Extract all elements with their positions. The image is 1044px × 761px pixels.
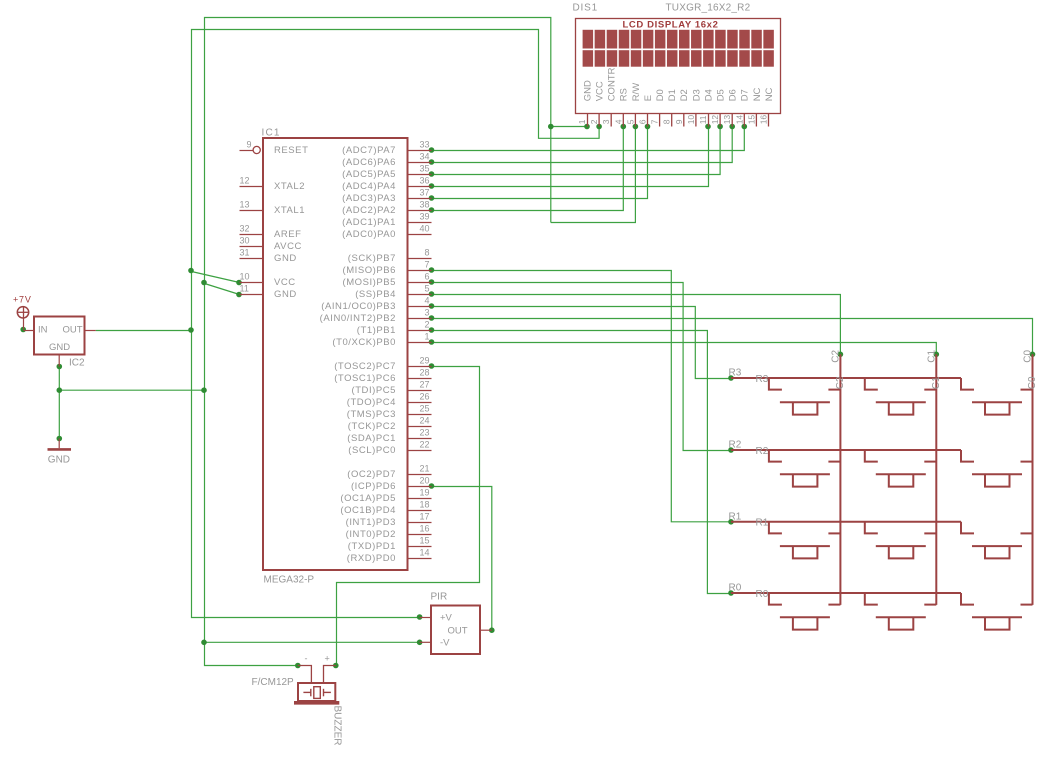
- svg-text:18: 18: [419, 500, 429, 510]
- svg-text:40: 40: [419, 224, 429, 234]
- svg-text:1: 1: [424, 332, 429, 342]
- svg-text:RS: RS: [619, 88, 630, 101]
- wire net PB1 to keypad row R0: [432, 331, 732, 594]
- svg-text:GND: GND: [48, 455, 70, 466]
- junction dot IC1 GND pin11: [236, 292, 242, 298]
- LCD pin 5 R/W: [634, 114, 636, 127]
- svg-text:OUT: OUT: [448, 626, 468, 637]
- IC1 pin 36 (ADC4)PA4: [408, 186, 432, 188]
- svg-text:R/W: R/W: [631, 83, 642, 102]
- svg-text:R1: R1: [756, 518, 769, 529]
- IC2 pin OUT: [85, 330, 96, 332]
- IC1 pin 34 (ADC6)PA6: [408, 162, 432, 164]
- wire net PA5 to LCD pin12: [432, 127, 721, 175]
- IC1 pin 27 (TDI)PC5: [408, 390, 432, 392]
- svg-text:37: 37: [419, 188, 429, 198]
- svg-text:14: 14: [734, 115, 744, 125]
- svg-text:XTAL2: XTAL2: [274, 181, 305, 192]
- wire net PC7 to buzzer plus: [337, 367, 480, 666]
- pushbutton switch R2C1: [865, 450, 937, 487]
- svg-text:19: 19: [419, 488, 429, 498]
- svg-text:8: 8: [424, 248, 429, 258]
- svg-text:23: 23: [419, 428, 429, 438]
- svg-text:(SS)PB4: (SS)PB4: [355, 289, 396, 300]
- LCD pin 4 RS: [622, 114, 624, 127]
- keypad column line C2: [839, 354, 841, 605]
- svg-text:(AIN1/OC0)PB3: (AIN1/OC0)PB3: [321, 301, 396, 312]
- svg-text:IC2: IC2: [69, 358, 85, 369]
- svg-text:C2: C2: [835, 376, 846, 389]
- svg-text:28: 28: [419, 368, 429, 378]
- svg-text:NC: NC: [752, 87, 763, 101]
- svg-text:3: 3: [601, 119, 611, 124]
- svg-text:+: +: [325, 654, 330, 664]
- LCD pin 12 D5: [719, 114, 721, 127]
- junction dots on LCD pins 1 2 4 5 6 11 12 13 14: [584, 124, 590, 130]
- IC1 pin 22 (SCL)PC0: [408, 450, 432, 452]
- LCD pin 2 VCC: [598, 114, 600, 127]
- svg-text:10: 10: [240, 272, 250, 282]
- svg-text:11: 11: [240, 284, 249, 294]
- IC1 pin 4 (AIN1/OC0)PB3: [408, 306, 432, 308]
- LCD pin 11 D4: [708, 114, 710, 127]
- svg-text:(SCL)PC0: (SCL)PC0: [348, 445, 396, 456]
- IC2 pin GND: [58, 355, 60, 367]
- wire net GND: main rail top and left vertical down to buzzer minus: [205, 18, 551, 666]
- IC1 pin 28 (TOSC1)PC6: [408, 378, 432, 380]
- svg-text:26: 26: [419, 392, 429, 402]
- IC1 pin 39 (ADC1)PA1: [408, 222, 432, 224]
- junction dot GND rail upper: [201, 280, 207, 286]
- svg-text:R3: R3: [756, 374, 769, 385]
- svg-text:D2: D2: [679, 89, 690, 101]
- pushbutton switch R2C2: [769, 450, 841, 487]
- svg-text:14: 14: [419, 548, 429, 558]
- svg-text:IN: IN: [38, 325, 48, 336]
- svg-text:15: 15: [746, 115, 756, 125]
- IC1 pin 17 (INT1)PD3: [408, 522, 432, 524]
- LCD pin 16 NC: [768, 114, 770, 127]
- svg-text:9: 9: [674, 119, 684, 124]
- junction dot VCC rail at IC2 OUT: [188, 327, 194, 333]
- IC IC1 MEGA32-P body: [263, 138, 408, 570]
- junction dot GND rail at PIR -V branch: [201, 640, 207, 646]
- junction dot IC1 VCC pin10: [236, 280, 242, 286]
- wire net VCC branch: diagonal to IC1 VCC pin 10: [192, 272, 240, 283]
- IC1 pin 24 (TCK)PC2: [408, 426, 432, 428]
- svg-text:(TDO)PC4: (TDO)PC4: [347, 397, 396, 408]
- svg-text:R2: R2: [729, 440, 742, 451]
- LCD pin 14 D7: [743, 114, 745, 127]
- svg-text:(TMS)PC3: (TMS)PC3: [347, 409, 396, 420]
- svg-text:BUZZER: BUZZER: [332, 706, 343, 746]
- svg-text:35: 35: [419, 164, 429, 174]
- buzzer SG minus lead: [298, 666, 312, 684]
- svg-text:GND: GND: [582, 80, 593, 101]
- svg-text:36: 36: [419, 176, 429, 186]
- LCD pin 6 E: [647, 114, 649, 127]
- svg-text:12: 12: [240, 176, 250, 186]
- IC1 pin 12 XTAL2: [240, 186, 264, 188]
- svg-text:RESET: RESET: [274, 145, 308, 156]
- svg-text:(INT1)PD3: (INT1)PD3: [346, 517, 396, 528]
- IC1 pin 6 (MOSI)PB5: [408, 282, 432, 284]
- svg-text:D6: D6: [728, 89, 739, 101]
- svg-text:MEGA32-P: MEGA32-P: [264, 575, 315, 586]
- keypad row line R2: [731, 449, 961, 451]
- IC1 pin 19 (OC1A)PD5: [408, 498, 432, 500]
- LCD pin 15 NC: [755, 114, 757, 127]
- IC1 pin 8 (SCK)PB7: [408, 258, 432, 260]
- IC1 pin 30 AVCC: [240, 246, 264, 248]
- svg-text:6: 6: [638, 119, 648, 124]
- buzzer F/CM12P body: [298, 683, 335, 701]
- svg-text:39: 39: [419, 212, 429, 222]
- svg-text:-: -: [305, 654, 308, 664]
- PIR pin OUT stub: [481, 629, 492, 631]
- svg-text:(OC1B)PD4: (OC1B)PD4: [340, 505, 396, 516]
- wire net GND branch: IC2 GND pin down to ground symbol: [58, 367, 60, 439]
- svg-text:8: 8: [662, 119, 672, 124]
- IC1 pin 3 (AIN0/INT2)PB2: [408, 318, 432, 320]
- svg-text:(T0/XCK)PB0: (T0/XCK)PB0: [332, 337, 396, 348]
- svg-text:(SDA)PC1: (SDA)PC1: [347, 433, 396, 444]
- junction dot ground tee: [57, 387, 63, 393]
- svg-text:(TCK)PC2: (TCK)PC2: [348, 421, 396, 432]
- wire net PA3 to LCD pin6 E: [432, 127, 648, 199]
- IC1 pin 7 (MISO)PB6: [408, 270, 432, 272]
- svg-text:AREF: AREF: [274, 229, 302, 240]
- svg-text:PIR: PIR: [431, 592, 448, 603]
- voltage regulator IC2 body: [34, 317, 85, 355]
- svg-text:-V: -V: [440, 638, 450, 649]
- keypad row line R0: [731, 592, 961, 594]
- junction dot buzzer plus: [333, 663, 339, 669]
- svg-text:C0: C0: [1023, 349, 1034, 362]
- svg-text:29: 29: [419, 356, 429, 366]
- svg-text:+V: +V: [440, 613, 453, 624]
- svg-text:VCC: VCC: [595, 81, 606, 101]
- wire net PB5 to keypad row R2: [432, 283, 732, 451]
- wire net PA6 to LCD pin13: [432, 127, 733, 163]
- svg-text:5: 5: [625, 119, 635, 124]
- svg-text:33: 33: [419, 140, 429, 150]
- pushbutton switch R0C0: [961, 593, 1033, 630]
- svg-text:5: 5: [424, 284, 429, 294]
- svg-text:(AIN0/INT2)PB2: (AIN0/INT2)PB2: [320, 313, 396, 324]
- svg-text:7: 7: [650, 119, 660, 124]
- LCD pin 7 D0: [659, 114, 661, 127]
- svg-text:30: 30: [240, 236, 250, 246]
- svg-text:16: 16: [419, 524, 429, 534]
- wire net PB2 to keypad column C0: [432, 319, 1033, 355]
- svg-text:11: 11: [698, 115, 708, 124]
- svg-text:6: 6: [424, 272, 429, 282]
- IC1 pin 26 (TDO)PC4: [408, 402, 432, 404]
- wire net VCC: LCD pin2 to rail to IC2 OUT junction down to PIR +V: [192, 30, 600, 618]
- svg-text:TUXGR_16X2_R2: TUXGR_16X2_R2: [666, 3, 751, 14]
- svg-text:15: 15: [419, 536, 429, 546]
- svg-text:(OC2)PD7: (OC2)PD7: [347, 469, 396, 480]
- svg-text:C0: C0: [1027, 376, 1038, 389]
- pushbutton switch R3C1: [865, 378, 937, 415]
- junction dot buzzer minus: [295, 663, 301, 669]
- wire net GND branch: to LCD pin5 R/W: [551, 127, 636, 223]
- IC1 pin 9 RESET with inverter bubble: [240, 150, 254, 152]
- buzzer left electrode: [303, 691, 310, 693]
- svg-text:13: 13: [722, 115, 732, 125]
- svg-text:GND: GND: [49, 342, 70, 353]
- svg-text:IC1: IC1: [262, 128, 281, 139]
- svg-text:38: 38: [419, 200, 429, 210]
- svg-text:R0: R0: [756, 589, 769, 600]
- svg-text:32: 32: [240, 224, 250, 234]
- svg-text:C1: C1: [926, 349, 937, 362]
- junction dot GND rail at ground branch: [201, 387, 207, 393]
- supply symbol +7V: [17, 307, 28, 318]
- svg-text:VCC: VCC: [274, 277, 296, 288]
- svg-text:9: 9: [247, 140, 252, 150]
- svg-text:R1: R1: [729, 511, 742, 522]
- sensor PIR body: [431, 606, 480, 655]
- LCD pin 1 GND: [587, 114, 589, 127]
- LCD pin 9 D2: [683, 114, 685, 127]
- svg-text:(ICP)PD6: (ICP)PD6: [351, 481, 396, 492]
- svg-text:GND: GND: [274, 289, 297, 300]
- svg-text:(ADC7)PA7: (ADC7)PA7: [342, 145, 396, 156]
- wire net PA7 to LCD pin14: [432, 127, 745, 151]
- svg-text:DIS1: DIS1: [573, 3, 598, 14]
- pushbutton switch R3C2: [769, 378, 841, 415]
- svg-text:2: 2: [589, 119, 599, 124]
- svg-text:22: 22: [419, 440, 429, 450]
- junction dots keypad row nets R3 R2 R1 R0: [728, 375, 734, 381]
- svg-text:LCD DISPLAY 16x2: LCD DISPLAY 16x2: [623, 19, 719, 30]
- junction dot IC2 IN: [20, 327, 26, 333]
- LCD pin 8 D1: [671, 114, 673, 127]
- svg-text:(SCK)PB7: (SCK)PB7: [348, 253, 396, 264]
- wire net GND branch: diagonal to IC1 GND pin 11: [205, 284, 240, 295]
- svg-text:+7V: +7V: [13, 295, 32, 305]
- IC1 pin 29 (TOSC2)PC7: [408, 366, 432, 368]
- IC1 pin 23 (SDA)PC1: [408, 438, 432, 440]
- wire net PA4 to LCD pin11: [432, 127, 709, 187]
- svg-text:OUT: OUT: [63, 325, 83, 336]
- LCD pin 3 CONTR: [610, 114, 612, 127]
- junction dot PIR -V: [417, 640, 423, 646]
- junction dots keypad column nets C2 C1 C0: [838, 352, 844, 358]
- wire net GND: LCD pin1 to junction: [551, 126, 588, 128]
- pushbutton switch R2C0: [961, 450, 1033, 487]
- svg-text:(MISO)PB6: (MISO)PB6: [342, 265, 396, 276]
- svg-text:(ADC6)PA6: (ADC6)PA6: [342, 157, 396, 168]
- PIR pin -V stub: [420, 641, 432, 643]
- pushbutton switch R1C2: [769, 522, 841, 559]
- svg-text:R2: R2: [756, 446, 769, 457]
- svg-text:(ADC1)PA1: (ADC1)PA1: [342, 217, 396, 228]
- svg-text:13: 13: [240, 200, 250, 210]
- IC1 pin 1 (T0/XCK)PB0: [408, 342, 432, 344]
- svg-text:25: 25: [419, 404, 429, 414]
- svg-text:D5: D5: [716, 89, 727, 101]
- svg-text:D4: D4: [703, 89, 714, 101]
- keypad row line R1: [731, 521, 961, 523]
- svg-text:(OC1A)PD5: (OC1A)PD5: [340, 493, 396, 504]
- svg-text:(MOSI)PB5: (MOSI)PB5: [342, 277, 396, 288]
- svg-text:4: 4: [424, 296, 429, 306]
- LCD character cells row 1: [583, 30, 774, 49]
- wire net PB6 to keypad row R1: [432, 271, 732, 522]
- wire net PB0 to keypad column C1: [432, 343, 937, 355]
- IC1 pin 32 AREF: [240, 234, 264, 236]
- buzzer base plate: [294, 701, 339, 705]
- IC1 pin 20 (ICP)PD6: [408, 486, 432, 488]
- svg-text:C2: C2: [830, 349, 841, 362]
- junction dots on IC1 right pins: [429, 147, 435, 153]
- wire net VCC branch: IC2 OUT to vertical rail: [96, 330, 192, 332]
- IC1 pin 37 (ADC3)PA3: [408, 198, 432, 200]
- svg-text:(ADC0)PA0: (ADC0)PA0: [342, 229, 396, 240]
- keypad row line R3: [731, 377, 961, 379]
- svg-text:(ADC5)PA5: (ADC5)PA5: [342, 169, 396, 180]
- svg-text:(ADC3)PA3: (ADC3)PA3: [342, 193, 396, 204]
- IC1 pin 40 (ADC0)PA0: [408, 234, 432, 236]
- IC1 pin 2 (T1)PB1: [408, 330, 432, 332]
- pushbutton switch R0C1: [865, 593, 937, 630]
- svg-text:C1: C1: [931, 376, 942, 389]
- IC1 pin 16 (INT0)PD2: [408, 534, 432, 536]
- IC1 pin 5 (SS)PB4: [408, 294, 432, 296]
- LCD pin 10 D3: [695, 114, 697, 127]
- svg-text:16: 16: [759, 115, 769, 125]
- svg-text:31: 31: [240, 248, 250, 258]
- LCD display DIS1 body TUXGR_16X2_R2: [576, 19, 781, 114]
- wire net GND branch: horizontal from IC2 GND to main vertical: [59, 389, 204, 391]
- junction dot VCC rail upper: [188, 268, 194, 274]
- IC1 pin 25 (TMS)PC3: [408, 414, 432, 416]
- IC1 pin 13 XTAL1: [240, 210, 264, 212]
- svg-text:(RXD)PD0: (RXD)PD0: [347, 553, 396, 564]
- svg-text:D1: D1: [667, 89, 678, 101]
- svg-text:34: 34: [419, 152, 429, 162]
- junction dot PIR OUT: [489, 627, 495, 633]
- wire net PB3 to keypad row R3: [432, 307, 732, 379]
- IC2 pin IN: [24, 330, 35, 332]
- svg-text:F/CM12P: F/CM12P: [252, 677, 295, 688]
- svg-text:17: 17: [419, 512, 429, 522]
- svg-text:(TDI)PC5: (TDI)PC5: [351, 385, 396, 396]
- IC1 pin 33 (ADC7)PA7: [408, 150, 432, 152]
- pushbutton switch R0C2: [769, 593, 841, 630]
- IC1 pin 18 (OC1B)PD4: [408, 510, 432, 512]
- svg-text:(TXD)PD1: (TXD)PD1: [348, 541, 396, 552]
- IC1 pin 10 VCC: [240, 282, 264, 284]
- svg-text:3: 3: [424, 308, 429, 318]
- junction dot IC2 GND pin: [57, 364, 63, 370]
- keypad column line C0: [1032, 354, 1034, 605]
- svg-text:(ADC4)PA4: (ADC4)PA4: [342, 181, 396, 192]
- IC1 pin 21 (OC2)PD7: [408, 474, 432, 476]
- svg-text:(TOSC2)PC7: (TOSC2)PC7: [334, 361, 396, 372]
- svg-text:AVCC: AVCC: [274, 241, 302, 252]
- svg-text:12: 12: [710, 115, 720, 125]
- IC1 pin 35 (ADC5)PA5: [408, 174, 432, 176]
- svg-text:10: 10: [686, 115, 696, 125]
- pushbutton switch R1C0: [961, 522, 1033, 559]
- svg-text:R3: R3: [729, 368, 742, 379]
- svg-text:(INT0)PD2: (INT0)PD2: [346, 529, 396, 540]
- IC1 pin 38 (ADC2)PA2: [408, 210, 432, 212]
- svg-text:E: E: [643, 95, 654, 101]
- svg-text:2: 2: [424, 320, 429, 330]
- svg-text:R0: R0: [729, 583, 742, 594]
- svg-text:(ADC2)PA2: (ADC2)PA2: [342, 205, 396, 216]
- wire net PB4 to keypad column C2: [432, 295, 841, 355]
- svg-text:D7: D7: [740, 89, 751, 101]
- svg-text:1: 1: [577, 119, 587, 124]
- LCD pin 13 D6: [731, 114, 733, 127]
- svg-text:7: 7: [424, 260, 429, 270]
- pushbutton switch R3C0: [961, 378, 1033, 415]
- svg-text:(TOSC1)PC6: (TOSC1)PC6: [334, 373, 396, 384]
- ground symbol GND: [58, 439, 60, 449]
- IC1 pin 15 (TXD)PD1: [408, 546, 432, 548]
- svg-text:(T1)PB1: (T1)PB1: [357, 325, 396, 336]
- pushbutton switch R1C1: [865, 522, 937, 559]
- IC1 pin 31 GND: [240, 258, 264, 260]
- buzzer crystal element: [314, 687, 321, 699]
- junction dot node at LCD GND branch: [548, 124, 554, 130]
- IC1 pin 14 (RXD)PD0: [408, 558, 432, 560]
- svg-text:GND: GND: [274, 253, 297, 264]
- buzzer right electrode: [324, 691, 331, 693]
- wire net GND branch: horizontal to PIR -V: [205, 641, 420, 643]
- wire net PA2 to LCD pin4 RS: [432, 127, 624, 211]
- svg-text:D0: D0: [655, 89, 666, 101]
- svg-text:27: 27: [419, 380, 429, 390]
- keypad column line C1: [935, 354, 937, 605]
- wire net PD6 to PIR OUT: [432, 487, 492, 631]
- svg-text:4: 4: [613, 119, 623, 124]
- LCD character cells row 2: [583, 50, 774, 66]
- svg-text:21: 21: [419, 464, 429, 474]
- svg-text:20: 20: [419, 476, 429, 486]
- svg-text:D3: D3: [691, 89, 702, 101]
- svg-text:24: 24: [419, 416, 429, 426]
- junction dot PIR +V: [417, 614, 423, 620]
- PIR pin +V stub: [420, 617, 432, 619]
- svg-text:CONTR: CONTR: [607, 67, 618, 101]
- junction dot at GND symbol: [57, 436, 63, 442]
- svg-text:NC: NC: [764, 87, 775, 101]
- IC1 pin 11 GND: [240, 294, 264, 296]
- buzzer plus lead: [324, 666, 336, 684]
- svg-text:XTAL1: XTAL1: [274, 205, 305, 216]
